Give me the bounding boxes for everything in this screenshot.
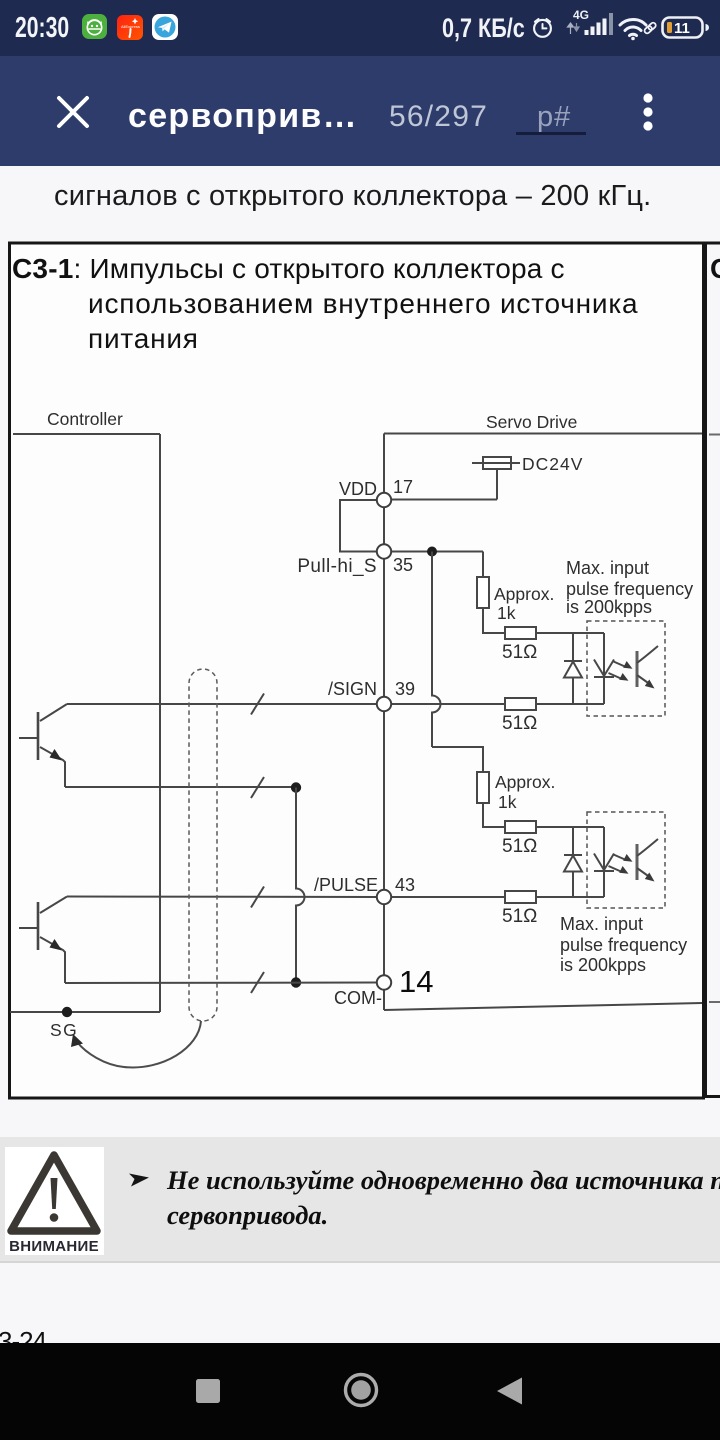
telegram icon — [152, 14, 178, 40]
close X icon — [56, 95, 90, 129]
optocoupler U1 dashed box — [587, 621, 665, 716]
transistor Q1 collector — [40, 704, 67, 721]
transistor Q2 base bar — [37, 902, 40, 950]
cable tick on /SIGN wire — [251, 694, 264, 715]
schematic frame box C3-1 — [10, 243, 704, 1098]
pin VDD circle — [377, 493, 391, 507]
resistor R1 Approx.1k — [477, 577, 489, 608]
junction node A — [291, 782, 301, 792]
svg-text:Max. input: Max. input — [566, 558, 649, 578]
resistor R3 Approx.1k — [477, 772, 489, 803]
phototransistor Q4 of U2 — [636, 844, 639, 880]
svg-text:39: 39 — [395, 679, 415, 699]
svg-text:17: 17 — [393, 477, 413, 497]
transistor Q1 emitter arrow — [50, 749, 63, 761]
wire node C branch to R3 — [432, 747, 483, 772]
junction node B — [291, 977, 301, 987]
svg-text:Max. input: Max. input — [560, 914, 643, 934]
wire R4 to optocoupler U1 cathode rail — [536, 703, 604, 705]
android nav bar — [0, 1343, 720, 1440]
transistor Q1 emitter — [40, 747, 65, 787]
wire /PULSE row — [67, 896, 377, 899]
wire node A down to node B with hop over /PULSE — [296, 788, 305, 983]
4G + signal bars — [573, 8, 589, 22]
light arrows U1 — [614, 662, 627, 668]
svg-text:1k: 1k — [498, 792, 517, 812]
svg-text:Pull-hi_S: Pull-hi_S — [297, 556, 377, 577]
wire VDD to Pull-hi_S loop — [340, 500, 377, 552]
svg-text:Approx.: Approx. — [494, 584, 554, 604]
svg-text:/PULSE: /PULSE — [314, 875, 378, 895]
warning block — [0, 1137, 720, 1261]
junction node SG — [62, 1007, 72, 1017]
diode D3 (reverse protection) — [572, 827, 574, 897]
svg-text:pulse frequency: pulse frequency — [566, 579, 693, 599]
green app icon — [82, 14, 107, 39]
transistor Q1 base lead — [19, 737, 38, 739]
resistor R6 51ohm — [505, 891, 536, 903]
resistor R2 51ohm — [505, 627, 536, 639]
battery DC24V symbol — [483, 457, 511, 469]
transistor Q2 emitter arrow — [50, 939, 63, 951]
wire channel1 drop to R1 — [482, 552, 484, 578]
battery DC24V wire to VDD — [391, 469, 497, 500]
svg-text:is 200kpps: is 200kpps — [560, 955, 646, 975]
svg-text:43: 43 — [395, 875, 415, 895]
transistor Q2 collector — [40, 897, 67, 914]
next column partial title — [710, 253, 720, 285]
svg-text:51Ω: 51Ω — [502, 642, 537, 663]
svg-text:14: 14 — [399, 964, 433, 999]
svg-text:35: 35 — [393, 555, 413, 575]
next column bottom border — [707, 1095, 720, 1098]
wire Pull-hi_S to node C — [391, 551, 483, 553]
shield of twisted pair cable (dashed) — [189, 669, 217, 1021]
diode D1 (reverse protection) — [572, 633, 574, 704]
resistor R4 51ohm — [505, 698, 536, 710]
app bar — [0, 56, 720, 166]
svg-text:51Ω: 51Ω — [502, 836, 537, 857]
wire R3 to R5 — [483, 803, 505, 827]
wire SG rail — [10, 1011, 160, 1013]
wire controller box top — [13, 433, 160, 435]
wire R1 to R2 — [483, 608, 505, 633]
optocoupler U2 dashed box — [587, 812, 665, 908]
svg-text:Controller: Controller — [47, 409, 123, 429]
pin /PULSE circle — [377, 890, 391, 904]
alarm clock icon — [531, 16, 554, 39]
status bar — [0, 0, 720, 56]
wire servo drive top edge — [384, 433, 702, 435]
svg-text:ВНИМАНИЕ: ВНИМАНИЕ — [9, 1238, 99, 1255]
next column left border — [704, 242, 707, 1099]
next column servo top wire — [709, 434, 720, 436]
diode D2 (opto LED) — [603, 633, 605, 704]
red app icon — [117, 15, 143, 40]
wire /SIGN row — [67, 703, 377, 705]
wire /PULSE to R6 — [392, 896, 505, 898]
svg-text:DC24V: DC24V — [522, 454, 583, 474]
next column top border — [707, 242, 720, 245]
page number — [0, 1326, 46, 1357]
wire emitter Q1 to node A — [65, 786, 296, 788]
shield-to-SG arrowhead — [71, 1034, 83, 1047]
wire node C down with hop over /SIGN — [432, 552, 441, 748]
wire servo drive bottom edge — [384, 1003, 702, 1010]
wire controller box right edge — [159, 434, 161, 1012]
wire R2 to optocoupler U1 anode rail — [536, 632, 604, 634]
wire R6 to optocoupler U2 cathode rail — [536, 896, 604, 898]
speed text — [442, 13, 525, 44]
warning icon — [5, 1147, 104, 1255]
transistor Q2 base lead — [19, 927, 38, 929]
phototransistor Q3 of U1 — [636, 651, 639, 687]
svg-text:VDD: VDD — [339, 479, 377, 499]
svg-text:is 200kpps: is 200kpps — [566, 597, 652, 617]
svg-text:51Ω: 51Ω — [502, 713, 537, 734]
light arrows U2 — [614, 855, 627, 861]
svg-text:11: 11 — [674, 20, 690, 37]
wire COM- row — [65, 982, 377, 985]
next column servo bottom wire — [709, 1001, 720, 1003]
svg-text:1k: 1k — [497, 603, 516, 623]
circuit schematic SVG — [0, 230, 720, 1110]
wire servo drive left edge (pin column) — [383, 434, 385, 1011]
cable tick on /PULSE wire — [251, 887, 264, 908]
svg-text:pulse frequency: pulse frequency — [560, 935, 687, 955]
diode D4 (opto LED) — [603, 827, 605, 897]
transistor Q2 emitter — [40, 937, 65, 983]
transistor Q1 base bar — [37, 712, 40, 760]
wifi icon with link — [617, 16, 657, 42]
cable tick on emitter wire — [251, 777, 264, 798]
svg-text:Servo Drive: Servo Drive — [486, 412, 577, 432]
svg-text:51Ω: 51Ω — [502, 906, 537, 927]
wire R5 to optocoupler U2 anode rail — [536, 826, 604, 828]
resistor R5 51ohm — [505, 821, 536, 833]
wire /SIGN to R4 — [392, 703, 505, 705]
svg-text:/SIGN: /SIGN — [328, 679, 377, 699]
schematic title — [12, 253, 565, 285]
svg-text:COM-: COM- — [334, 988, 382, 1008]
pin /SIGN circle — [377, 697, 391, 711]
battery icon — [661, 16, 709, 39]
pin Pull-hi_S circle — [377, 544, 391, 558]
warning bullet arrow — [128, 1170, 152, 1190]
pin COM- circle — [377, 975, 391, 989]
svg-text:Approx.: Approx. — [495, 772, 555, 792]
cable tick on COM- wire — [251, 972, 264, 993]
junction node C — [427, 547, 437, 557]
shield-to-SG arrow curve — [77, 1021, 201, 1067]
page text line — [54, 180, 651, 213]
